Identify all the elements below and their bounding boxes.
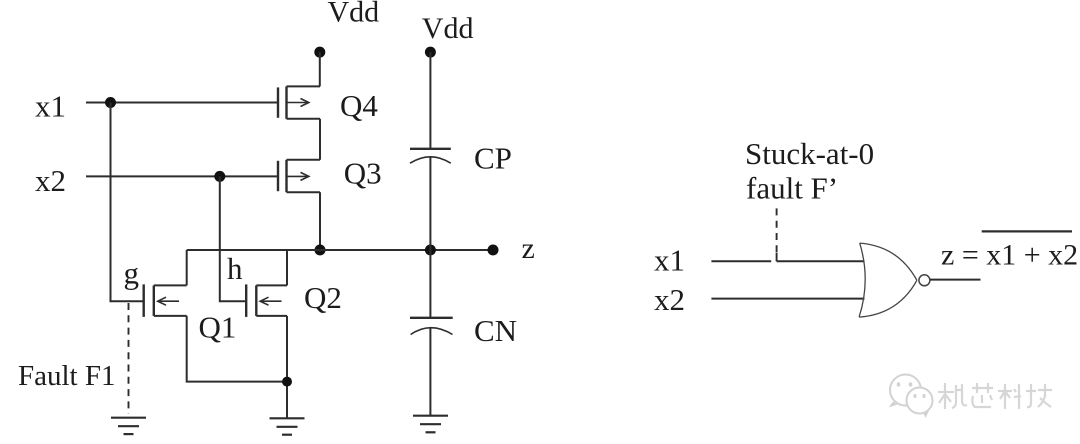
svg-text:Vdd: Vdd <box>328 0 380 29</box>
transistor Q3 <box>278 160 320 192</box>
node source junction dot <box>282 377 292 387</box>
wire z rail <box>187 249 493 251</box>
node Vdd2 terminal dot <box>425 47 436 58</box>
watermark logo chat bubbles <box>889 375 933 419</box>
ground (fault F1) <box>111 418 146 434</box>
wire Vdd1 to Q4 drain <box>319 52 321 86</box>
wire Q1 source down <box>187 316 287 382</box>
svg-text:Fault F1: Fault F1 <box>18 360 116 392</box>
wire CN to ground <box>429 328 431 416</box>
ground (under Q1 Q2) <box>270 418 305 434</box>
node x1 junction dot <box>105 97 116 108</box>
wire Q3 source down to node z <box>319 192 321 250</box>
node Vdd1 terminal dot <box>314 47 325 58</box>
svg-text:Q2: Q2 <box>304 280 342 315</box>
node x2 junction dot <box>214 171 225 182</box>
wire gate output <box>930 279 981 281</box>
transistor Q4 <box>278 86 320 118</box>
svg-text:h: h <box>227 251 243 286</box>
wire fault tick <box>776 253 778 262</box>
overline of x1 + x2 <box>982 230 1072 232</box>
wire x2 input <box>86 175 278 177</box>
wire x2 branch down to Q2 gate <box>220 176 246 301</box>
wire gate input x1 left segment <box>711 260 771 262</box>
node z rail junction dot <box>315 245 326 256</box>
svg-text:fault F’: fault F’ <box>746 170 838 205</box>
svg-text:x2: x2 <box>35 163 66 198</box>
svg-text:Stuck-at-0: Stuck-at-0 <box>745 136 874 171</box>
NOR gate U1 <box>859 243 930 317</box>
svg-text:x2: x2 <box>654 282 685 317</box>
transistor Q1 <box>144 284 187 317</box>
capacitor CP <box>410 149 451 163</box>
svg-text:z = x1 + x2: z = x1 + x2 <box>941 238 1078 271</box>
node CP junction dot <box>425 245 436 256</box>
wire Q4 source to Q3 drain <box>319 119 321 160</box>
svg-text:CP: CP <box>474 141 512 176</box>
node z terminal dot <box>488 245 499 256</box>
transistor Q2 <box>246 284 287 317</box>
svg-text:Q4: Q4 <box>340 88 378 123</box>
wire gate input x2 <box>711 298 864 300</box>
svg-text:CN: CN <box>474 313 517 348</box>
capacitor CN <box>410 318 453 335</box>
wire CP to z rail <box>429 158 431 251</box>
svg-text:Q3: Q3 <box>344 156 382 191</box>
svg-text:x1: x1 <box>654 243 685 278</box>
wire Vdd2 to CP <box>429 52 431 149</box>
svg-text:g: g <box>124 256 140 291</box>
wire fault F' dashed stub <box>776 208 778 252</box>
wire Q1 drain up to z rail <box>186 250 188 285</box>
ground (under CN) <box>413 416 448 433</box>
wire x1 input <box>86 102 278 104</box>
wire x1 branch down to Q1 gate <box>111 103 144 302</box>
wire Q2 drain up to z rail <box>286 250 288 285</box>
wire fault F1 dashed stub <box>128 303 130 414</box>
svg-text:Q1: Q1 <box>199 310 237 345</box>
watermark text strokes <box>938 383 1052 409</box>
svg-text:z: z <box>522 232 535 265</box>
wire z rail to CN <box>429 250 431 318</box>
wire Q2 source down to ground <box>286 316 288 418</box>
svg-text:x1: x1 <box>35 89 66 124</box>
wire gate input x1 right segment <box>777 260 865 262</box>
svg-text:Vdd: Vdd <box>422 12 474 45</box>
